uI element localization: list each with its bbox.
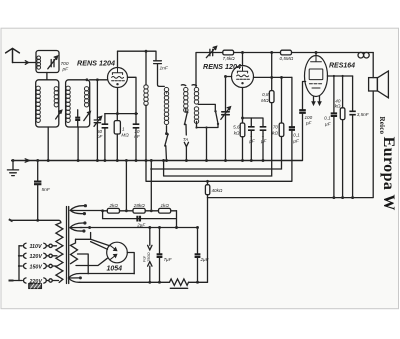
antenna bbox=[6, 48, 20, 62]
svg-text:40kΩ: 40kΩ bbox=[212, 188, 223, 193]
bottom bus bbox=[80, 281, 208, 283]
capacitor in block2 bbox=[75, 118, 80, 120]
svg-text:0,5MΩ: 0,5MΩ bbox=[280, 56, 294, 61]
tube V2 internals bbox=[237, 67, 250, 80]
capacitor 2uF b bbox=[197, 228, 199, 254]
wire S1 to bus bbox=[165, 146, 168, 161]
wire S3 center tap bbox=[78, 254, 89, 274]
IF coil L5 bbox=[164, 87, 168, 124]
wire anode V1 bbox=[118, 51, 157, 60]
resistor 2kOhm bbox=[107, 208, 119, 213]
resistor 40kOhm a bbox=[205, 185, 209, 195]
resistor 0.5MOhm bbox=[281, 50, 292, 55]
switch S3 bbox=[216, 112, 218, 124]
svg-text:2µF: 2µF bbox=[136, 222, 146, 227]
svg-text:750Ω: 750Ω bbox=[146, 252, 151, 262]
wire to speaker bbox=[372, 53, 374, 78]
wire anode V3 bbox=[327, 75, 352, 77]
tube V3 internals bbox=[309, 56, 323, 88]
svg-text:1: 1 bbox=[262, 133, 265, 138]
resistor 0.8MOhm bbox=[271, 53, 273, 91]
tube V3 top cap wire bbox=[315, 53, 317, 56]
label heater rotated bbox=[142, 252, 151, 262]
svg-text:0,1: 0,1 bbox=[293, 133, 300, 138]
svg-text:1: 1 bbox=[250, 133, 253, 138]
wire L5 bottom bbox=[166, 126, 168, 133]
variable capacitor C3 bbox=[206, 46, 216, 57]
svg-text:RENS 1204: RENS 1204 bbox=[203, 62, 241, 71]
capacitor 1nF bbox=[154, 61, 165, 87]
capacitor 5nF bbox=[37, 161, 39, 182]
HV winding S3 bbox=[71, 239, 78, 263]
wire coupler tap bbox=[46, 73, 48, 80]
rectifier cathode wire bbox=[127, 253, 134, 274]
variable capacitor C2 bbox=[221, 77, 231, 161]
transformer primary winding bbox=[56, 223, 63, 283]
wire anode V2 bbox=[254, 76, 292, 78]
svg-text:70: 70 bbox=[273, 125, 279, 130]
resistor 5.6kOhm bbox=[242, 88, 244, 124]
resistor chain wires bbox=[102, 210, 176, 212]
svg-text:kΩ: kΩ bbox=[272, 130, 278, 135]
resistor 28kOhm bbox=[133, 208, 145, 213]
capacitor 3.5nF bbox=[352, 76, 354, 111]
svg-text:Reico: Reico bbox=[378, 117, 386, 135]
voltage selector taps bbox=[19, 245, 22, 247]
coil L1 in coupler box bbox=[37, 56, 41, 69]
svg-text:1nF: 1nF bbox=[160, 66, 169, 72]
wire to TA contact bbox=[185, 125, 187, 136]
svg-text:RES164: RES164 bbox=[329, 62, 355, 69]
svg-text:100: 100 bbox=[305, 115, 313, 120]
tuned circuit block L2 bbox=[36, 80, 59, 127]
wire L7 tap bbox=[198, 104, 215, 110]
svg-text:0,1: 0,1 bbox=[324, 116, 331, 121]
HT rail wire bbox=[196, 53, 373, 88]
coil L3b bbox=[84, 87, 88, 107]
svg-text:3,5nF: 3,5nF bbox=[357, 112, 370, 117]
transformer primary taps bbox=[52, 246, 58, 281]
tuned circuit block L3 bbox=[66, 80, 90, 127]
svg-text:50: 50 bbox=[97, 129, 103, 134]
capacitor 100pF bbox=[303, 82, 306, 110]
ground symbol bbox=[7, 161, 18, 176]
resistor 1MOhm bbox=[116, 114, 118, 121]
tube V1 internals bbox=[112, 68, 125, 81]
svg-text:110V: 110V bbox=[30, 244, 42, 250]
TA arrow contact bbox=[184, 142, 188, 160]
IF coil L4 bbox=[145, 51, 147, 85]
ground bus bbox=[11, 160, 303, 162]
wire speaker return bbox=[372, 91, 374, 198]
resistor 1kOhm bbox=[159, 208, 171, 213]
svg-text:kΩ: kΩ bbox=[234, 130, 240, 135]
svg-text:kΩ: kΩ bbox=[335, 104, 341, 109]
svg-text:150V: 150V bbox=[30, 264, 43, 270]
rectifier internals bbox=[110, 245, 117, 260]
wire 0.8M to return bbox=[164, 103, 272, 176]
svg-text:10: 10 bbox=[134, 129, 140, 134]
svg-text:MΩ: MΩ bbox=[121, 132, 129, 137]
coil L2a bbox=[36, 86, 40, 122]
output choke bbox=[358, 52, 364, 58]
resistor 70kOhm bbox=[281, 77, 283, 123]
mains wire upper bbox=[11, 220, 61, 222]
tube V1 envelope bbox=[108, 68, 128, 88]
wire cathode V1 bbox=[105, 88, 137, 114]
wire antenna to coupler box bbox=[13, 61, 37, 65]
svg-text:1kΩ: 1kΩ bbox=[161, 203, 170, 208]
voltage selector rail bbox=[18, 246, 20, 281]
switch S1 bbox=[165, 135, 168, 146]
svg-text:0,8: 0,8 bbox=[262, 92, 269, 97]
svg-text:pF: pF bbox=[62, 67, 70, 73]
wire IF to bus bbox=[206, 128, 208, 161]
coil L3a bbox=[66, 86, 70, 122]
tube V1 top cap wire bbox=[117, 51, 119, 67]
wire C bias rail bbox=[208, 197, 373, 199]
capacitor 50pF bbox=[104, 114, 106, 125]
svg-text:1: 1 bbox=[122, 127, 125, 132]
wire grid V1 bbox=[90, 79, 108, 81]
wire bias return B bbox=[150, 161, 152, 210]
resistor 7.5kOhm bbox=[223, 50, 234, 55]
svg-text:700: 700 bbox=[61, 61, 69, 67]
svg-text:MΩ: MΩ bbox=[261, 98, 269, 103]
svg-text:7µF: 7µF bbox=[164, 257, 173, 262]
mains plug prong bbox=[9, 280, 14, 282]
transformer core bbox=[67, 207, 69, 284]
svg-text:TA: TA bbox=[183, 137, 189, 142]
heater winding S2 bbox=[70, 223, 84, 231]
IF coil L7b bbox=[194, 107, 198, 124]
svg-text:7,5kΩ: 7,5kΩ bbox=[223, 56, 236, 61]
svg-text:120V: 120V bbox=[30, 254, 43, 260]
capacitor 2uF a bbox=[137, 216, 140, 222]
svg-text:5,6: 5,6 bbox=[233, 125, 240, 130]
resistor 40kOhm b bbox=[342, 76, 344, 108]
fuse bbox=[29, 284, 42, 289]
wire S3 bottom to rectifier bbox=[76, 258, 107, 265]
wire grid V2 bbox=[226, 76, 232, 78]
svg-text:Europa W: Europa W bbox=[380, 137, 397, 211]
IF coil L7 bbox=[192, 84, 197, 87]
svg-text:28kΩ: 28kΩ bbox=[133, 203, 145, 208]
antenna coupler box bbox=[36, 51, 59, 73]
IF coil L6 bbox=[181, 84, 186, 87]
wire L7 bottom bbox=[197, 121, 219, 127]
variable capacitor 700pF bbox=[48, 56, 58, 69]
capacitor 0.1uF b bbox=[333, 76, 335, 113]
tube V2 envelope bbox=[232, 66, 254, 88]
capacitor 7uF bbox=[159, 228, 161, 254]
tube V3 envelope bbox=[305, 56, 328, 97]
tube V3 heater pins bbox=[312, 96, 321, 104]
wire anode aux V1 bbox=[127, 77, 136, 113]
capacitor 0.1uF a bbox=[291, 77, 293, 126]
capacitor 1uF b bbox=[251, 118, 263, 127]
heater plug arrows bbox=[148, 228, 152, 283]
svg-text:1054: 1054 bbox=[107, 266, 123, 273]
switch S2 bbox=[185, 109, 187, 112]
wire block1 to bus bbox=[47, 127, 49, 161]
trimmer switch block2 bbox=[84, 112, 91, 121]
B+ rail bbox=[80, 227, 198, 229]
coil L2b bbox=[54, 87, 58, 107]
field resistor zigzag bbox=[170, 279, 189, 285]
wire 70k to return bbox=[151, 137, 281, 170]
tube V2 top cap wire bbox=[242, 53, 244, 66]
wire C down bbox=[207, 198, 209, 283]
speaker bbox=[369, 78, 378, 91]
svg-text:2kΩ: 2kΩ bbox=[109, 203, 119, 208]
bypass wire bbox=[103, 211, 177, 228]
tuning capacitor C1 bbox=[94, 80, 102, 161]
heater winding S1 bbox=[70, 206, 102, 214]
svg-text:2µF: 2µF bbox=[200, 257, 210, 262]
capacitor 10nF bbox=[135, 114, 137, 125]
rectifier tube 1054 bbox=[107, 242, 128, 263]
wire rectifier heater bbox=[76, 233, 110, 250]
svg-text:5nF: 5nF bbox=[42, 187, 51, 193]
capacitor 1uF a bbox=[241, 117, 244, 120]
trimmer switch block1 bbox=[56, 110, 62, 119]
wire bias return A bbox=[145, 161, 147, 182]
wire block2 to bus bbox=[77, 127, 79, 161]
svg-text:RENS 1204: RENS 1204 bbox=[77, 59, 115, 68]
wire smoothing down bbox=[125, 161, 127, 210]
heater winding S4 bbox=[69, 273, 135, 282]
